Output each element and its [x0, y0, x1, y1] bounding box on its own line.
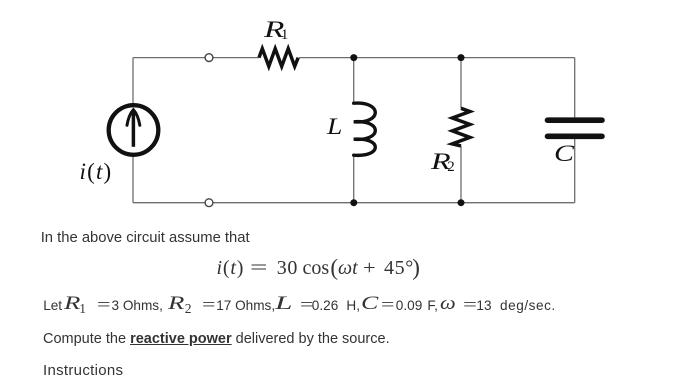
current source arrow shaft — [132, 112, 136, 147]
capacitor C plate top — [548, 117, 603, 123]
label i(t) — [80, 159, 113, 185]
text line 1 — [41, 231, 250, 246]
node bottom-right — [458, 199, 465, 206]
wire bottom — [133, 202, 575, 204]
text line 3 — [0, 0, 1, 1]
resistor R1 — [259, 49, 298, 67]
current source circle — [109, 105, 159, 155]
wire right below capacitor — [574, 139, 576, 203]
wire L branch bottom — [353, 155, 355, 203]
current source arrow head — [127, 110, 140, 126]
wire R2 branch top — [460, 58, 462, 109]
label L — [327, 114, 342, 140]
wire L branch top — [353, 58, 355, 104]
wire top-right segment — [299, 57, 575, 59]
terminal bottom — [205, 199, 213, 207]
wire R2 branch bottom — [460, 146, 462, 203]
node bottom-left — [350, 199, 357, 206]
node top-left — [350, 54, 357, 61]
text line 4 — [43, 332, 390, 347]
label R1 — [264, 17, 284, 43]
text line 5 — [43, 363, 123, 378]
capacitor C plate bottom — [548, 134, 603, 140]
resistor R2 — [452, 108, 470, 146]
wire left above source — [132, 58, 134, 105]
label R2 — [431, 149, 451, 175]
wire left below source — [132, 155, 134, 203]
wire top-left segment — [133, 57, 259, 59]
equation line — [0, 0, 1, 1]
label C — [554, 141, 574, 167]
wire right above capacitor — [574, 58, 576, 118]
node top-right — [458, 54, 465, 61]
terminal top — [205, 54, 213, 62]
inductor L — [354, 103, 376, 155]
